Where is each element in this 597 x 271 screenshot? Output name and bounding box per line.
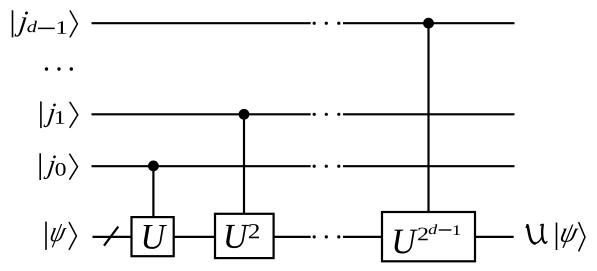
ket |j_1> bar — [40, 101, 42, 128]
wire psi segment U^2 to gap — [274, 236, 311, 238]
gate box U^{2^{d-1}} — [382, 212, 475, 261]
gate U^2 exponent 2 — [249, 224, 259, 238]
wire psi gap ellipsis — [313, 235, 341, 238]
wire j_{d-1} gap ellipsis — [313, 22, 341, 25]
gate U^2 label letter U — [226, 225, 249, 248]
wire j_0 gap ellipsis — [313, 165, 341, 168]
wire qubit j_0 right segment — [343, 165, 515, 167]
wire j_1 gap ellipsis — [313, 113, 341, 116]
ket psi rangle — [69, 222, 76, 250]
ket subscript 1 — [56, 111, 65, 124]
wire qubit j_0 left segment — [92, 165, 311, 167]
control dot on j_1 — [239, 109, 250, 120]
gate exponent 1 — [453, 225, 460, 235]
gate U label — [144, 225, 167, 249]
output ket psi — [558, 224, 579, 247]
control wire j_1 to U^2 — [243, 114, 245, 214]
ket |psi> bar — [45, 222, 47, 250]
ket j_0 letter j — [43, 155, 56, 179]
ket subscript d — [27, 21, 37, 33]
wire qubit j_1 left segment — [92, 113, 311, 115]
wire psi segment to output — [475, 236, 514, 238]
ket j_0 rangle — [69, 154, 77, 180]
ket subscript 0 — [56, 163, 66, 176]
ket j_1 rangle — [70, 102, 78, 128]
gate U^{2^{d-1}} exponent 2 — [418, 228, 428, 241]
ket |j_0> bar — [39, 153, 41, 180]
ket j_{d-1} letter j — [14, 11, 28, 36]
output mathcal U — [526, 225, 547, 244]
control wire j_{d-1} to U^{2^{d-1}} — [427, 23, 429, 212]
control dot on j_{d-1} — [423, 18, 434, 29]
wire psi segment gap to U^{2^{d-1}} — [343, 236, 382, 238]
wire qubit j_{d-1} right segment — [343, 22, 515, 24]
ket subscript minus — [38, 27, 55, 29]
control dot on j_0 — [148, 161, 159, 172]
output ket rangle — [579, 222, 585, 251]
bundle slash on psi wire — [104, 227, 118, 246]
wire qubit j_1 right segment — [343, 113, 515, 115]
omitted wires ellipsis — [45, 67, 73, 70]
gate box U^2 — [215, 214, 274, 258]
gate exponent minus — [439, 229, 452, 231]
wire psi segment U to U^2 — [174, 236, 215, 238]
ket j_{d-1} rangle — [70, 10, 78, 37]
gate exponent d — [429, 224, 438, 234]
gate U^{2^{d-1}} label letter U — [394, 230, 417, 254]
gate box U — [132, 217, 174, 256]
control wire j_0 to U — [152, 166, 154, 217]
ket |j_{d-1}> bar — [12, 10, 14, 37]
ket psi letter — [48, 224, 67, 247]
ket subscript 1 — [57, 21, 66, 34]
wire qubit j_{d-1} left segment — [92, 22, 311, 24]
wire psi segment from label to U — [93, 236, 132, 238]
ket j_1 letter j — [43, 104, 56, 128]
output ket bar — [556, 223, 558, 251]
